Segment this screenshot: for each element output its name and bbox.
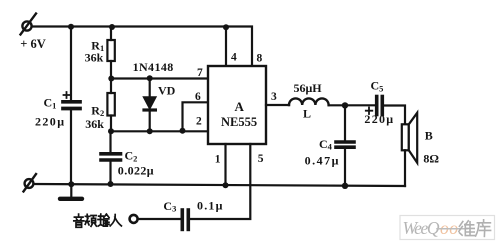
svg-text:0.022μ: 0.022μ bbox=[118, 164, 154, 178]
svg-text:C2: C2 bbox=[125, 149, 138, 164]
resistor R2 bbox=[107, 79, 114, 132]
svg-text:5: 5 bbox=[258, 153, 264, 165]
watermark wei char bbox=[459, 221, 475, 236]
node R2 C2 junction bbox=[108, 128, 114, 134]
svg-text:NE555: NE555 bbox=[221, 115, 257, 129]
wire pin 2 bbox=[111, 130, 208, 132]
wire pin 7 bbox=[111, 77, 208, 79]
svg-text:7: 7 bbox=[197, 67, 203, 79]
svg-text:4: 4 bbox=[231, 52, 237, 64]
bottom rail wire bbox=[34, 184, 406, 186]
watermark ku char bbox=[476, 220, 491, 237]
ground bbox=[60, 184, 82, 199]
node R1 top bbox=[109, 24, 115, 30]
capacitor C4 bbox=[336, 105, 354, 186]
diode VD 1N4148 bbox=[144, 78, 156, 131]
char ru (input) bbox=[110, 215, 121, 226]
wire top rail to pin 8 bbox=[32, 27, 252, 67]
capacitor C3 bbox=[138, 210, 188, 229]
char yin (sound) bbox=[74, 214, 84, 227]
terminal bottom left bbox=[24, 174, 37, 192]
svg-text:A: A bbox=[235, 99, 245, 114]
svg-text:R2: R2 bbox=[91, 104, 104, 119]
watermark strike line bbox=[437, 228, 467, 230]
svg-text:0.1μ: 0.1μ bbox=[197, 198, 224, 212]
svg-text:1N4148: 1N4148 bbox=[133, 60, 174, 74]
node R1 R2 junction bbox=[108, 76, 114, 82]
node C4 top bbox=[342, 102, 348, 108]
svg-text:36k: 36k bbox=[85, 51, 104, 65]
node pin 1 bottom bbox=[223, 182, 229, 188]
wire pin 5 to C3 bbox=[191, 144, 251, 219]
wire pin 3 bbox=[266, 104, 289, 106]
node C1 top bbox=[68, 24, 74, 30]
svg-text:8Ω: 8Ω bbox=[423, 151, 439, 165]
capacitor C1 bbox=[63, 27, 80, 185]
svg-text:2: 2 bbox=[196, 116, 202, 128]
watermark box bbox=[400, 216, 495, 240]
label audio input (Chinese) bbox=[74, 214, 122, 227]
node diode bottom bbox=[147, 128, 153, 134]
svg-text:+ 6V: + 6V bbox=[20, 37, 46, 51]
svg-text:56μH: 56μH bbox=[294, 81, 323, 95]
terminal +6V (top left) bbox=[21, 14, 37, 35]
op-amp IC A NE555 bbox=[208, 66, 266, 144]
node C1 bottom / ground bbox=[68, 181, 74, 187]
svg-text:C4: C4 bbox=[319, 137, 333, 152]
char pin (frequency) bbox=[85, 214, 96, 226]
terminal audio input bbox=[130, 215, 138, 223]
wire L to C5 bbox=[329, 104, 375, 106]
node C4 bottom bbox=[342, 183, 348, 189]
svg-text:C1: C1 bbox=[44, 96, 57, 111]
svg-text:6: 6 bbox=[195, 91, 201, 103]
svg-text:B: B bbox=[425, 128, 433, 142]
resistor R1 bbox=[107, 27, 114, 79]
svg-text:220μ: 220μ bbox=[35, 114, 65, 128]
inductor L 56uH bbox=[289, 98, 329, 105]
svg-text:1: 1 bbox=[215, 154, 221, 166]
svg-text:3: 3 bbox=[271, 91, 277, 103]
node diode top bbox=[147, 75, 153, 81]
svg-text:0.47μ: 0.47μ bbox=[305, 154, 340, 168]
node pin 4 bbox=[223, 24, 229, 30]
svg-text:C5: C5 bbox=[371, 79, 384, 94]
svg-text:WeeQ: WeeQ bbox=[403, 218, 440, 238]
capacitor C5 bbox=[366, 97, 405, 125]
svg-text:36k: 36k bbox=[85, 117, 104, 131]
node pin6 bracket junction bbox=[180, 128, 186, 134]
svg-text:8: 8 bbox=[257, 53, 263, 65]
char shu (transport) bbox=[98, 214, 109, 226]
svg-text:C3: C3 bbox=[163, 199, 176, 214]
svg-text:VD: VD bbox=[158, 84, 176, 98]
svg-text:L: L bbox=[303, 107, 311, 121]
speaker B bbox=[402, 113, 417, 186]
node C2 bottom bbox=[108, 181, 114, 187]
capacitor C2 bbox=[101, 131, 121, 183]
svg-text:220μ: 220μ bbox=[364, 112, 394, 126]
wire pin 4 bbox=[225, 27, 227, 66]
wire pin 1 bbox=[224, 144, 226, 185]
wire pin 6 bracket bbox=[183, 102, 209, 131]
